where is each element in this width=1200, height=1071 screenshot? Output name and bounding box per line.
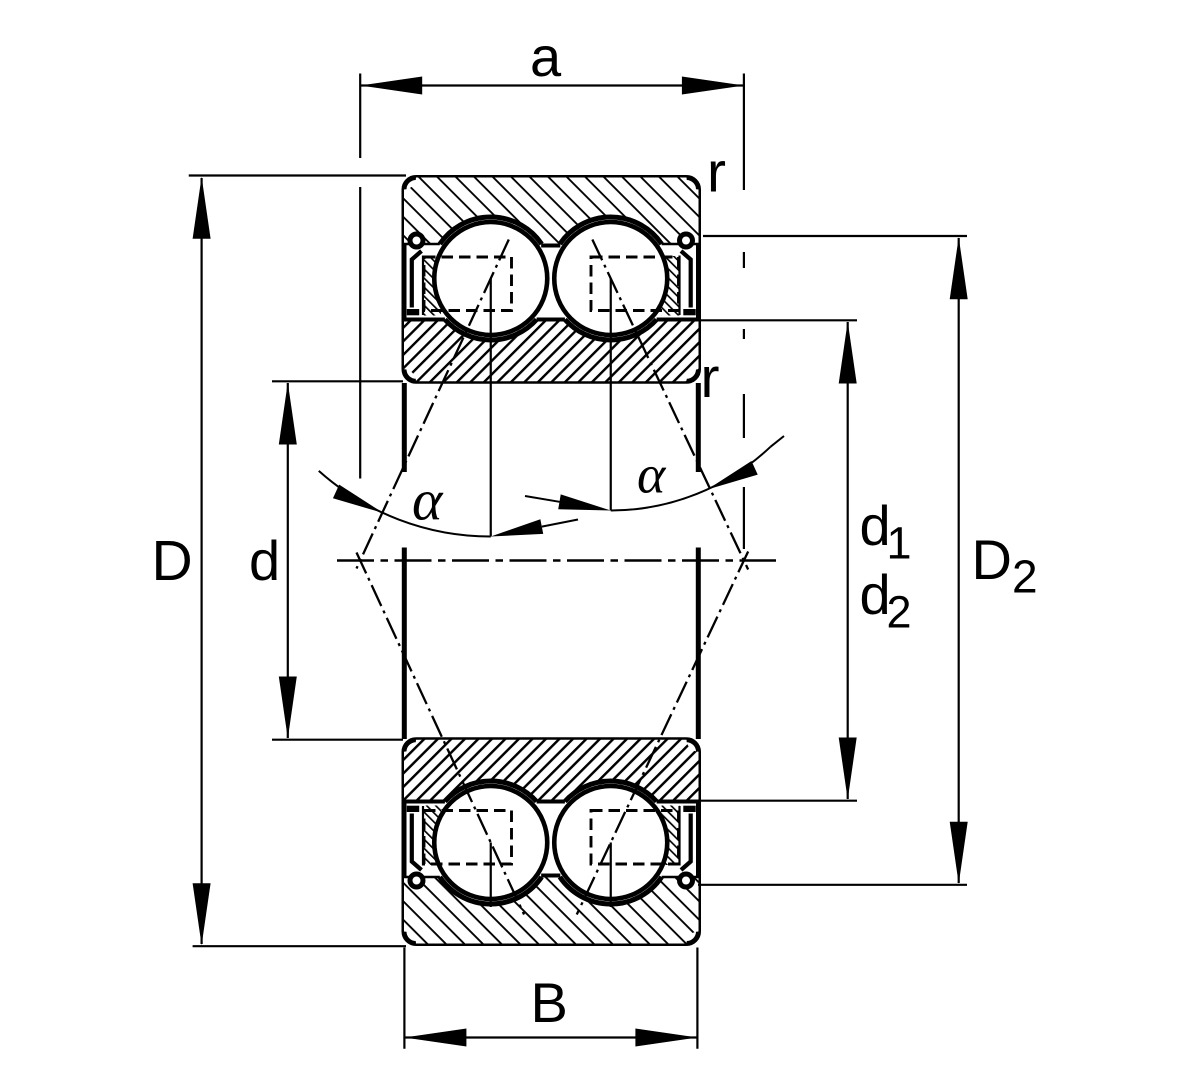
- svg-text:2: 2: [887, 587, 912, 638]
- svg-text:2: 2: [1012, 551, 1038, 603]
- svg-text:D: D: [152, 529, 193, 593]
- svg-text:α: α: [412, 468, 444, 533]
- svg-text:D: D: [972, 528, 1012, 591]
- svg-text:d: d: [249, 529, 280, 592]
- svg-text:B: B: [531, 971, 568, 1034]
- svg-text:1: 1: [887, 518, 912, 569]
- svg-text:r: r: [707, 141, 726, 205]
- svg-text:a: a: [530, 25, 562, 88]
- svg-text:α: α: [637, 445, 667, 505]
- svg-text:r: r: [701, 346, 720, 410]
